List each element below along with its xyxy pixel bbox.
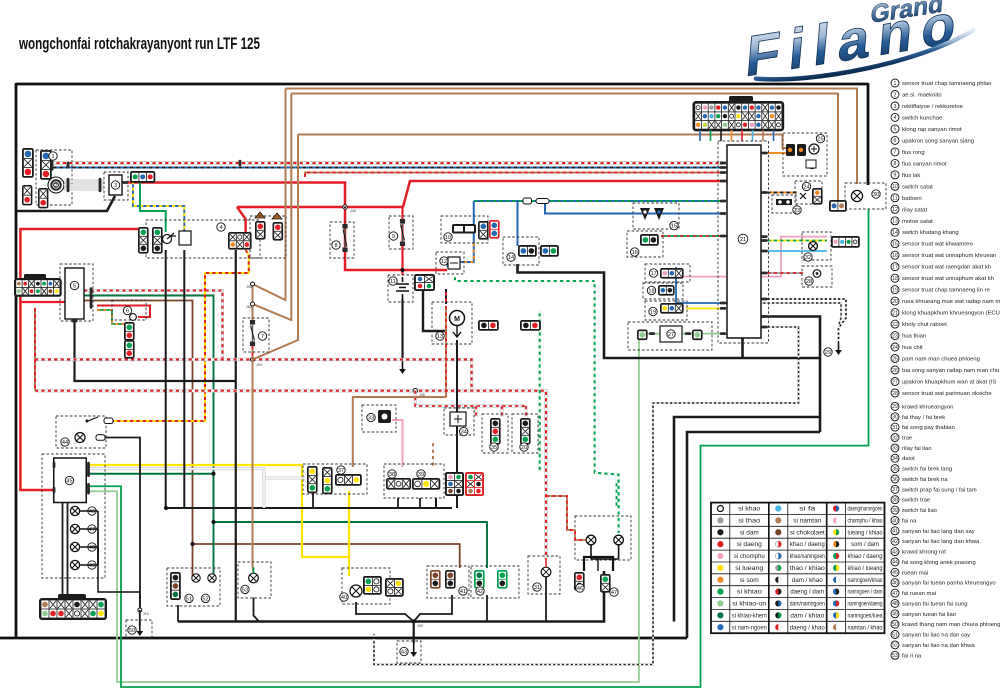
svg-text:53: 53 — [242, 587, 248, 593]
svg-text:sanyan fai liao na dan say: sanyan fai liao na dan say — [902, 633, 970, 639]
svg-text:rektiflaiyoe / rekkuretoe: rektiflaiyoe / rekkuretoe — [902, 104, 964, 110]
component box 13 starter motor — [432, 302, 472, 344]
svg-text:sensor truat chap tamnaeng lin: sensor truat chap tamnaeng lin re — [902, 288, 990, 294]
svg-text:fius sanyan rimot: fius sanyan rimot — [902, 161, 947, 167]
svg-text:49: 49 — [89, 563, 95, 569]
svg-text:sanyan fai liao na dan khwa: sanyan fai liao na dan khwa — [902, 643, 975, 649]
svg-text:10: 10 — [445, 235, 451, 241]
label label 43 — [400, 647, 408, 655]
svg-text:44: 44 — [892, 560, 898, 566]
svg-text:fai ri na: fai ri na — [902, 653, 922, 659]
wire red main R1 — [128, 183, 448, 271]
svg-text:38: 38 — [892, 498, 898, 504]
wire red main R2 — [237, 206, 403, 209]
label label 17 — [649, 269, 657, 277]
wire black motor ground drop — [456, 340, 458, 508]
wire black switch ground C — [419, 498, 421, 508]
starter motor M — [450, 311, 465, 326]
svg-text:47: 47 — [89, 527, 95, 533]
label label 1 — [49, 152, 57, 160]
svg-text:10: 10 — [892, 184, 898, 190]
connector tail harness — [829, 200, 847, 212]
svg-text:27: 27 — [668, 332, 674, 338]
svg-text:45: 45 — [892, 570, 898, 576]
svg-text:44: 44 — [62, 440, 68, 446]
wire brown V2 — [253, 94, 292, 321]
svg-text:9: 9 — [392, 234, 395, 240]
svg-text:si dam: si dam — [740, 530, 759, 536]
spark plug 23 — [776, 199, 792, 205]
indicator lamp 48 — [70, 542, 79, 551]
svg-text:41: 41 — [460, 589, 466, 595]
label label 45 — [65, 476, 73, 484]
svg-text:wongchonfai rotchakrayanyont r: wongchonfai rotchakrayanyont run LTF 125 — [18, 35, 260, 53]
svg-text:43: 43 — [892, 549, 898, 555]
svg-text:motoe satat: motoe satat — [902, 219, 933, 225]
svg-text:2: 2 — [894, 92, 897, 98]
fuse 7 — [250, 320, 255, 346]
svg-text:33: 33 — [368, 415, 374, 421]
label label 26 — [808, 160, 816, 168]
svg-text:hua thian: hua thian — [902, 334, 926, 340]
meter box 45 — [54, 458, 87, 503]
svg-text:krawd khrueangyon: krawd khrueangyon — [902, 404, 953, 410]
wire black front signal ground — [177, 605, 179, 622]
wire brown H2 feed — [291, 94, 838, 201]
wire blue/black magneto line — [50, 167, 727, 169]
svg-text:si daeng: si daeng — [737, 542, 762, 548]
label label 46 — [576, 584, 584, 592]
label label 25 — [816, 134, 824, 142]
component box 18 iat sensor — [643, 283, 683, 299]
svg-text:50: 50 — [129, 628, 135, 634]
wire blue/yellow key wire — [133, 181, 184, 232]
connector tail A — [574, 572, 585, 591]
svg-text:switch satat: switch satat — [902, 184, 933, 190]
component box 28 o2 sensor — [802, 266, 832, 287]
svg-text:23: 23 — [892, 333, 898, 339]
component box 31 license lamp — [528, 556, 560, 594]
label label 11 — [389, 277, 397, 285]
ignition coil 22 — [786, 144, 806, 156]
svg-text:dam / khiao: dam / khiao — [790, 614, 825, 620]
ground bus frame bottom — [0, 637, 687, 640]
label label 50 — [128, 626, 136, 634]
connector buzzer A — [124, 322, 135, 341]
component box 25 fuel pump — [783, 133, 827, 176]
wire black switch riser — [435, 498, 437, 508]
key switch symbol — [163, 233, 177, 244]
wire pink meter signal wire — [662, 237, 827, 277]
svg-text:si lueang: si lueang — [735, 566, 763, 572]
Grand Filano logo — [733, 0, 977, 89]
svg-text:fai na: fai na — [902, 519, 917, 525]
svg-text:21: 21 — [892, 310, 898, 316]
starter relay coil — [448, 257, 460, 269]
component box 51-52 front signals — [167, 568, 220, 606]
svg-text:chomphu / khao: chomphu / khao — [848, 519, 884, 525]
svg-text:6: 6 — [126, 308, 129, 314]
svg-text:17: 17 — [650, 271, 656, 277]
label label 37 — [337, 466, 345, 474]
wire black rectifier ground — [16, 196, 115, 211]
wire black lamp ground bus — [178, 571, 604, 622]
connector turn rear left A — [430, 570, 441, 589]
component box 14 sidestand switch — [503, 237, 539, 265]
connector switch C — [445, 472, 464, 496]
connector sensor mid B — [520, 418, 531, 445]
svg-text:20: 20 — [892, 299, 898, 305]
svg-text:si namtan: si namtan — [793, 519, 821, 525]
svg-text:dam / khao: dam / khao — [792, 578, 824, 584]
wire red/white drop s18 — [525, 406, 528, 417]
component box 1-2 sensor/magneto — [36, 150, 72, 205]
svg-text:klong khuapkhum khrueangyon (E: klong khuapkhum khrueangyon (ECU) — [902, 311, 1000, 317]
connector meter signals — [831, 236, 860, 248]
warn lamp A — [586, 535, 596, 545]
svg-text:50: 50 — [892, 622, 898, 628]
component box 16 temp sensor — [627, 231, 663, 257]
wire red/white crank sensor line — [50, 161, 727, 164]
wire black sidestand ground — [518, 264, 821, 358]
component box 7 fuse sub — [243, 318, 269, 352]
speed sensor connectors — [640, 208, 664, 220]
component box 17 map sensor — [645, 264, 690, 282]
svg-text:26: 26 — [892, 368, 898, 374]
label label 24 — [802, 182, 810, 190]
ground tank 50 — [136, 622, 143, 636]
component box 11 battery — [388, 275, 413, 302]
svg-text:daiot: daiot — [902, 456, 915, 462]
lamp 48 link — [80, 547, 98, 565]
tail brake lamp 30 — [851, 190, 862, 201]
svg-text:39: 39 — [892, 508, 898, 514]
component box 12 starter relay — [436, 252, 464, 274]
label label 47 — [88, 525, 96, 533]
ground battery — [399, 360, 406, 374]
component box 8 fuse remote — [330, 222, 354, 258]
connector relay B — [273, 222, 284, 241]
svg-text:51: 51 — [892, 632, 898, 638]
wire black stair to bottom bus — [687, 432, 820, 638]
svg-text:M: M — [454, 316, 460, 323]
svg-text:16: 16 — [892, 253, 898, 259]
component box 21 ECU outline — [718, 141, 769, 343]
component box 42 rear turn right — [471, 566, 519, 598]
connector left small A — [22, 185, 32, 205]
indicator lamp 46 — [70, 506, 79, 515]
svg-text:khao/namngoen: khao/namngoen — [790, 554, 825, 560]
connector turn rear right B — [497, 570, 508, 589]
bottom connector notch — [58, 594, 86, 600]
svg-text:51: 51 — [186, 596, 192, 602]
svg-text:daeng / dam: daeng / dam — [790, 590, 824, 596]
label label 18 — [647, 286, 655, 294]
wire red/yellow lamp feed — [112, 255, 249, 421]
svg-text:namngoen/daeng: namngoen/daeng — [848, 602, 883, 608]
position lamp 53 — [249, 567, 259, 583]
connector iat sensor — [658, 285, 675, 296]
svg-text:fai song klong anek prasong: fai song klong anek prasong — [902, 560, 976, 566]
wire brown dimmer trunk — [353, 397, 446, 467]
svg-text:battoeri: battoeri — [902, 196, 922, 202]
connector key switch grid — [228, 232, 252, 250]
component box 15 speed sensor — [633, 203, 679, 229]
wire blue/green start line — [474, 200, 723, 202]
wire black switch ground B — [397, 498, 399, 508]
label label 7 — [258, 332, 266, 340]
svg-text:15: 15 — [671, 224, 677, 230]
connector sidestand B — [540, 245, 559, 257]
svg-text:17: 17 — [892, 265, 898, 271]
wire green/white meter drop — [616, 480, 618, 507]
wire blue speed sensor line — [545, 201, 722, 214]
wire blue sidestand riser — [517, 201, 519, 246]
wire green/orange buzzer wire — [97, 310, 124, 324]
starter switch body — [452, 224, 476, 234]
label label 8 — [332, 241, 340, 249]
svg-text:46: 46 — [892, 581, 898, 587]
svg-text:14: 14 — [892, 230, 898, 236]
svg-text:pam nam man chuea phloeng: pam nam man chuea phloeng — [902, 357, 980, 363]
label label 39 — [417, 470, 425, 478]
rectifier box 3 — [109, 175, 122, 195]
component box 19 tps — [645, 301, 687, 320]
connector dimmer grid — [335, 474, 362, 486]
svg-text:2: 2 — [54, 183, 57, 189]
connector buzzer B — [124, 340, 135, 359]
svg-text:si fa: si fa — [799, 507, 816, 513]
label label 41 — [459, 587, 467, 595]
svg-text:lueang / khiao: lueang / khiao — [848, 530, 884, 536]
connector headlight A — [363, 576, 382, 595]
connector map sensor — [660, 268, 684, 279]
component box 27 isc valve — [628, 322, 712, 350]
wire black ecu ground riser — [741, 338, 744, 358]
label label 15 — [670, 221, 678, 229]
svg-text:7: 7 — [894, 150, 897, 156]
wire black frame ground drop — [413, 622, 415, 644]
wire black license lamp ground — [545, 577, 547, 622]
lamp 46 link — [80, 511, 98, 565]
svg-text:13: 13 — [892, 219, 898, 225]
svg-text:41: 41 — [892, 529, 898, 535]
connector switch D red — [465, 472, 484, 496]
component box 41 rear turn left — [427, 566, 469, 598]
component box 4 key switch — [146, 220, 260, 258]
svg-text:35: 35 — [892, 466, 898, 472]
svg-text:J53: J53 — [246, 305, 252, 309]
connector temp sensor — [640, 234, 659, 246]
label label 19 — [649, 307, 657, 315]
connector starter relay — [414, 274, 435, 291]
wire brown V1 — [253, 89, 286, 301]
wire black/white engine ground wire B — [761, 303, 841, 326]
connector dimmer B — [322, 467, 333, 494]
wire blue start sw drop — [473, 201, 475, 243]
wire red/white drop s16 — [475, 406, 478, 417]
indicator lamp 47 — [70, 524, 79, 533]
component box 9 main fuse — [389, 216, 413, 249]
wire pink flasher wire — [392, 420, 403, 467]
svg-text:19: 19 — [650, 309, 656, 315]
svg-text:ruean mai: ruean mai — [902, 570, 928, 576]
wire yellow tps wire — [686, 307, 727, 309]
svg-text:45: 45 — [66, 478, 72, 484]
connector sensor mid A — [490, 418, 501, 445]
svg-text:J54: J54 — [256, 363, 262, 367]
svg-text:46: 46 — [577, 586, 583, 592]
svg-text:8: 8 — [894, 161, 897, 167]
svg-text:37: 37 — [892, 487, 898, 493]
label label 28 — [805, 277, 813, 285]
component box 44 glovebox lamp — [56, 416, 106, 448]
component box 3 rectifier — [104, 172, 128, 200]
svg-text:J43: J43 — [246, 285, 252, 289]
svg-text:13: 13 — [437, 334, 443, 340]
connector turn grid — [412, 478, 440, 490]
svg-text:kholy chut raboet: kholy chut raboet — [902, 322, 947, 328]
svg-text:5: 5 — [73, 283, 76, 289]
svg-text:5: 5 — [894, 127, 897, 133]
wire tan/red left riser — [34, 308, 36, 391]
connector left small B — [38, 188, 48, 208]
wire tan/red warn feed — [546, 496, 586, 540]
buzzer symbol — [130, 314, 137, 321]
wire red key switch feed — [237, 207, 246, 234]
svg-text:sensor truat wat parimuan oksi: sensor truat wat parimuan oksiche — [902, 391, 992, 397]
fuse 8 — [342, 224, 347, 252]
diode body 34 — [450, 412, 466, 426]
motor ground arrow — [453, 326, 461, 337]
wire black/white engine ground wire A — [761, 299, 846, 340]
svg-text:tua song sanyan radap nam man: tua song sanyan radap nam man chu — [902, 368, 999, 374]
wire red buzzer wire — [97, 306, 150, 318]
key switch body — [179, 231, 191, 245]
svg-text:khao / daeng: khao / daeng — [790, 542, 825, 548]
wire black meter ground 1 — [62, 503, 64, 599]
wire orange/black injector wire — [761, 192, 797, 194]
label label 4 — [217, 223, 225, 231]
svg-text:switch khatang khang: switch khatang khang — [902, 230, 959, 236]
label label 27 — [667, 330, 675, 338]
wire black key ground A — [165, 250, 167, 508]
wire red/white drop s17 — [501, 406, 504, 417]
svg-text:J45: J45 — [419, 393, 425, 397]
label label 16 — [631, 248, 639, 256]
svg-text:53: 53 — [892, 653, 898, 659]
svg-text:switch fai brek lang: switch fai brek lang — [902, 467, 952, 473]
lamp 49 link — [80, 564, 98, 566]
AC magneto stator coils — [48, 177, 64, 193]
lamp44 plug B — [96, 435, 105, 441]
connector crank sensor B — [40, 150, 52, 180]
label label 52 — [201, 594, 209, 602]
svg-text:24: 24 — [892, 345, 898, 351]
component box 40 headlight — [342, 568, 390, 604]
svg-text:som / dam: som / dam — [851, 542, 879, 548]
lamp 47 link — [80, 529, 98, 565]
wire brown chocolate turnfeed — [84, 301, 193, 578]
wire green/white turn wire D2 — [595, 281, 619, 533]
component box 24 injector — [795, 181, 822, 204]
svg-text:si chokolaet: si chokolaet — [790, 530, 825, 536]
wire blue/orange relay wire — [448, 243, 474, 267]
svg-text:si khao: si khao — [738, 507, 761, 513]
wire black switch ground A — [312, 492, 314, 508]
wire brown H3 pump feed — [298, 135, 791, 149]
tail light bracket — [584, 557, 613, 571]
component box meter signals — [802, 232, 831, 260]
stator 3-wire bundle — [64, 181, 104, 189]
wire red meter trunk — [20, 229, 142, 490]
label label 3 — [111, 181, 119, 189]
wire brown position lamp feed — [253, 360, 254, 573]
svg-text:6: 6 — [894, 138, 897, 144]
wire cyan meter wire — [761, 250, 827, 252]
connector tail B — [600, 574, 611, 593]
label label 32 — [804, 253, 812, 261]
svg-text:rilay satat: rilay satat — [902, 207, 928, 213]
wire green key wire — [140, 181, 166, 232]
label label 29 — [824, 348, 832, 356]
svg-text:ae.si. maeknito: ae.si. maeknito — [902, 93, 942, 99]
connector crank sensor A — [22, 148, 34, 178]
svg-text:18: 18 — [892, 276, 898, 282]
relay B cap — [272, 213, 282, 219]
wire orange ignition coil wire — [761, 152, 788, 154]
svg-text:24: 24 — [803, 184, 809, 190]
label label 33 — [367, 413, 375, 421]
front signal lamps — [192, 574, 216, 582]
warn lamp grounds — [591, 545, 619, 559]
wire red fuse9 drop — [401, 207, 403, 275]
wire blue sensor wire — [676, 267, 727, 303]
svg-text:42: 42 — [477, 589, 483, 595]
connector bottom left — [39, 598, 107, 620]
svg-text:39: 39 — [418, 472, 424, 478]
label label 35 — [490, 443, 498, 451]
inline connector start line — [523, 198, 549, 204]
wire brown fuse7 link — [252, 284, 254, 320]
indicator lamp 49 — [70, 560, 79, 569]
component box sensor mid B — [512, 414, 538, 453]
svg-text:36: 36 — [892, 477, 898, 483]
svg-text:J09: J09 — [417, 624, 423, 628]
connector motor B — [520, 320, 541, 331]
svg-text:si som: si som — [740, 578, 759, 584]
label label 31 — [533, 583, 541, 591]
svg-text:namngoen / dam: namngoen / dam — [848, 590, 883, 596]
wire green meter LGa — [86, 209, 869, 687]
fuse 9 — [400, 219, 405, 246]
o2 sensor symbol — [813, 270, 821, 278]
connector front signals — [170, 572, 181, 600]
wire black tank ground drop — [139, 610, 141, 626]
connector key switch B — [152, 227, 163, 254]
wire dark green meter G2 — [86, 474, 214, 583]
label label 49 — [88, 561, 96, 569]
label label 44 — [61, 438, 69, 446]
wire brown chocolate rear branch — [193, 544, 460, 568]
wire yellow headlight feed — [86, 465, 349, 576]
svg-text:52: 52 — [202, 596, 208, 602]
svg-text:19: 19 — [892, 287, 898, 293]
ground frame 43 — [410, 643, 417, 657]
svg-text:25: 25 — [817, 137, 823, 143]
svg-text:si thao: si thao — [738, 519, 761, 525]
label label 9 — [389, 232, 397, 240]
